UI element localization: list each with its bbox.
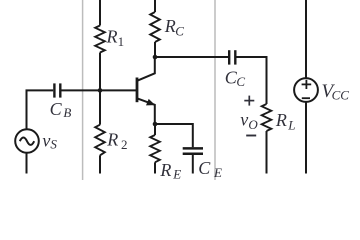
wire: CB to transistor base: [62, 89, 137, 91]
svg-text:C: C: [198, 158, 211, 178]
wire: supply branch down to RC: [154, 0, 156, 12]
label R1: [106, 27, 125, 50]
wire: RL to bottom edge: [266, 131, 268, 174]
svg-text:C: C: [175, 24, 184, 39]
transistor Q1: [137, 57, 155, 124]
svg-text:1: 1: [118, 34, 125, 49]
svg-text:R: R: [159, 160, 171, 180]
label RC: [164, 16, 184, 39]
svg-text:B: B: [63, 105, 71, 120]
wire: R2 to bottom edge: [99, 155, 101, 173]
label vS: [42, 131, 57, 152]
svg-text:R: R: [164, 16, 176, 36]
svg-text:E: E: [213, 165, 222, 180]
label RE: [159, 160, 181, 181]
svg-text:R: R: [106, 27, 118, 47]
wire: CE to bottom edge: [192, 155, 194, 174]
svg-text:2: 2: [121, 137, 128, 152]
wire: base node down to R2: [99, 90, 101, 124]
label output plus: [244, 96, 254, 106]
capacitor CB: [54, 83, 60, 97]
source VCC: [294, 78, 318, 102]
svg-text:C: C: [50, 99, 63, 119]
svg-text:v: v: [240, 110, 248, 130]
label CC: [225, 67, 246, 89]
source vS: [15, 129, 39, 153]
wire: vS to bottom edge: [26, 153, 28, 174]
label CB: [50, 99, 72, 120]
svg-text:O: O: [248, 117, 258, 132]
wire: supply branch down to VCC source: [305, 0, 307, 78]
svg-text:S: S: [50, 136, 57, 151]
label output minus: [246, 135, 256, 137]
wire: emitter node to CE: [155, 124, 193, 147]
wire: collector node to CC: [155, 56, 228, 58]
svg-text:R: R: [275, 110, 287, 130]
capacitor CE: [183, 148, 203, 153]
label vO: [240, 110, 258, 133]
wire: CC to RL top: [237, 57, 267, 104]
node: collector junction: [153, 55, 158, 60]
node: emitter junction: [153, 122, 158, 127]
svg-text:v: v: [42, 131, 50, 151]
label R2: [106, 130, 127, 152]
label RL: [275, 110, 296, 132]
resistor R2: [95, 125, 105, 156]
svg-text:L: L: [287, 117, 295, 132]
wire: RE to bottom edge: [154, 162, 156, 173]
wire: vS top to CB: [27, 90, 54, 129]
wire: R1 bottom to base node: [99, 53, 101, 91]
svg-text:E: E: [172, 166, 181, 180]
svg-text:C: C: [236, 74, 245, 89]
node: base bias junction: [98, 88, 103, 93]
resistor R1: [95, 26, 105, 53]
resistor RL: [262, 104, 272, 131]
label CE: [198, 158, 222, 180]
label VCC: [322, 81, 350, 103]
svg-text:CC: CC: [332, 88, 350, 103]
wire: VCC source to bottom edge: [305, 102, 307, 174]
wire: supply branch down to R1: [99, 0, 101, 26]
capacitor CC: [229, 50, 235, 64]
svg-text:R: R: [106, 130, 118, 150]
resistor RC: [150, 12, 160, 42]
wire: emitter node to RE: [154, 124, 156, 135]
wire: RC to collector node: [154, 42, 156, 57]
resistor RE: [150, 135, 160, 162]
